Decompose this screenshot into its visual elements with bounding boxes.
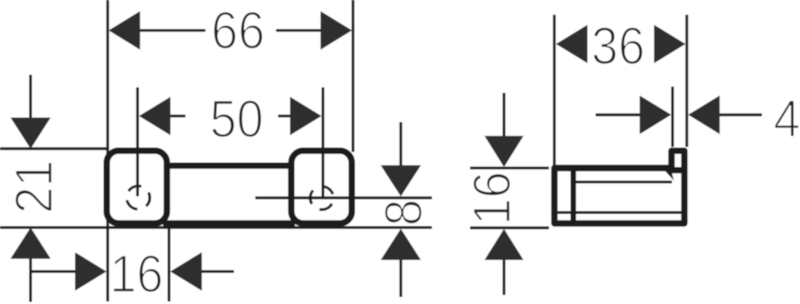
arrow 21 down — [11, 118, 51, 149]
dim 16 right tail — [201, 270, 234, 273]
ext line 16 side bottom — [470, 226, 549, 229]
arrow 36 left — [556, 25, 588, 64]
arrow 16 side up — [485, 229, 524, 260]
svg-text:66: 66 — [211, 1, 265, 60]
ext line 21 top — [0, 147, 107, 150]
dim 66 left tail — [139, 29, 206, 32]
arrow 16 side down — [485, 136, 524, 167]
right hook plate — [291, 151, 352, 224]
ext line bottom (21 / 8) — [0, 226, 432, 229]
arrow 50 right — [290, 97, 322, 136]
ext line 16 bottom right — [168, 221, 171, 302]
dim 16 left tail — [32, 270, 76, 273]
side view groove bottom — [671, 167, 684, 173]
dim 8 upper tail — [399, 122, 402, 166]
arrow 8 down — [381, 165, 421, 196]
arrow 16 bottom pointing right — [75, 252, 107, 291]
dim 50 right tail — [278, 115, 291, 118]
bar top edge (front view) — [163, 162, 295, 168]
svg-text:16: 16 — [110, 244, 164, 303]
dim 4 right tail — [719, 113, 763, 116]
dim 16 side upper tail — [503, 93, 506, 137]
left hook plate — [107, 151, 167, 224]
side view hook notch diagonal — [663, 169, 674, 181]
dim 66 right tail — [276, 29, 322, 32]
svg-text:36: 36 — [591, 16, 645, 75]
arrow 50 left — [139, 97, 171, 136]
svg-text:8: 8 — [373, 199, 432, 226]
hook symbol right (dashed circle) — [310, 186, 333, 209]
arrow 36 right — [654, 25, 686, 64]
ext line 16 side top — [470, 167, 549, 170]
dim 8 lower tail — [399, 259, 402, 297]
arrow 66 right — [321, 11, 353, 50]
arrow 66 left — [109, 11, 141, 50]
side view outline — [554, 151, 684, 224]
svg-text:21: 21 — [4, 160, 63, 214]
ext line 66/16 left — [106, 0, 109, 302]
svg-text:4: 4 — [773, 89, 800, 148]
ext line 4 left — [671, 87, 674, 147]
dim 21 upper tail — [29, 75, 32, 119]
hook symbol left (dashed circle) — [127, 186, 150, 209]
dim 21 lower tail — [29, 258, 32, 302]
dim 50 left tail — [170, 115, 186, 118]
dim 16 side lower tail — [503, 259, 506, 295]
ext/center line 50 left — [136, 87, 139, 196]
ext line 66 right — [352, 0, 355, 152]
arrow 16 bottom pointing left — [170, 252, 202, 291]
bar bottom edge (front view) — [163, 220, 295, 226]
arrow 4 pointing left — [688, 96, 720, 135]
ext/center line 50 right — [321, 87, 324, 196]
arrow 21 up — [11, 228, 51, 259]
side view wall plate line — [571, 166, 577, 225]
side view inner line upper — [575, 181, 672, 184]
side view inner line lower — [555, 211, 682, 214]
svg-text:16: 16 — [462, 171, 521, 225]
dim 4 left tail — [596, 113, 640, 116]
ext line 8 top — [255, 196, 432, 199]
svg-text:50: 50 — [210, 89, 264, 148]
ext line 36 left — [553, 15, 556, 166]
ext line 36 right — [685, 15, 688, 147]
arrow 4 pointing right — [640, 96, 672, 135]
arrow 8 up — [381, 229, 421, 260]
